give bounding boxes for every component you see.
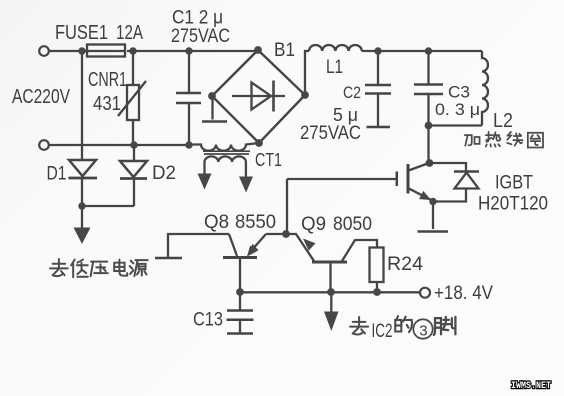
- node C13 top: [236, 288, 244, 296]
- svg-text:IGBT: IGBT: [495, 173, 533, 194]
- node B1 right: [301, 91, 309, 99]
- node R24 bottom: [373, 288, 381, 296]
- svg-text:H20T120: H20T120: [478, 194, 548, 215]
- svg-text:CT1: CT1: [255, 150, 282, 170]
- inductor L1: [309, 45, 362, 51]
- node driver common: [282, 230, 290, 238]
- transformer CT1 primary: [189, 143, 259, 151]
- svg-text:275VAC: 275VAC: [300, 123, 361, 144]
- svg-text:431: 431: [93, 93, 121, 115]
- node IGBT collector: [426, 159, 434, 167]
- svg-text:FUSE1: FUSE1: [55, 22, 108, 44]
- svg-text:0. 3 μ: 0. 3 μ: [435, 100, 480, 119]
- varistor CNR1: [118, 51, 146, 145]
- svg-text:8550: 8550: [235, 212, 276, 233]
- circled 3: [413, 319, 432, 338]
- ground at B1 left: [202, 96, 227, 122]
- svg-text:IWMS.NET: IWMS.NET: [511, 381, 551, 392]
- node B1 left: [208, 92, 216, 100]
- diode D2: [120, 145, 147, 206]
- arrow CT1 left lead: [198, 174, 212, 190]
- transistor Q9 8050: [286, 234, 377, 292]
- capacitor C2: [365, 51, 391, 127]
- capacitor C13: [227, 292, 254, 334]
- wire C3 to L2 bottom: [429, 124, 483, 126]
- wire B1 right up: [305, 51, 309, 95]
- svg-text:+18. 4V: +18. 4V: [434, 283, 493, 304]
- node D1 bottom: [78, 202, 85, 209]
- wire to IGBT collector: [427, 126, 429, 164]
- node IGBT emitter: [429, 198, 436, 205]
- label 加热线圈 (heating coil): [465, 132, 543, 148]
- node B1 top: [254, 46, 262, 54]
- wire emitter down: [432, 202, 434, 230]
- transformer CT1 secondary: [205, 156, 246, 177]
- wire: [49, 50, 91, 52]
- node IC2 branch: [327, 288, 335, 296]
- IGBT Q: [397, 163, 433, 201]
- terminal AC top: [39, 46, 49, 56]
- wire: [362, 50, 482, 52]
- arrow to low-voltage supply: [74, 206, 91, 244]
- inductor L2 heating coil: [482, 51, 488, 126]
- capacitor C1: [176, 51, 201, 145]
- node C3 top: [425, 47, 432, 54]
- svg-text:C13: C13: [193, 310, 223, 331]
- svg-text:B1: B1: [274, 40, 295, 61]
- svg-text:C3: C3: [448, 83, 470, 102]
- transistor Q8 8550: [155, 234, 286, 292]
- node CNR1 top: [129, 47, 136, 54]
- capacitor C3: [414, 51, 443, 126]
- svg-text:L2: L2: [493, 110, 513, 132]
- bridge rectifier B1: [212, 50, 305, 143]
- arrow CT1 right lead: [239, 177, 253, 193]
- resistor R24: [370, 248, 384, 293]
- node C3 bottom: [425, 122, 433, 130]
- terminal +18.4V: [420, 288, 430, 298]
- label 去低压电源 (to low voltage supply): [50, 259, 148, 277]
- node D2 top: [130, 141, 137, 148]
- svg-text:8050: 8050: [333, 214, 372, 235]
- fuse FUSE1: [87, 45, 125, 57]
- terminal AC bottom: [39, 140, 49, 150]
- svg-text:12A: 12A: [116, 22, 143, 44]
- svg-text:IC2: IC2: [372, 321, 393, 342]
- svg-text:AC220V: AC220V: [12, 86, 71, 108]
- node C2 top: [374, 47, 381, 54]
- node B1 bottom: [255, 139, 263, 147]
- svg-text:L1: L1: [326, 57, 343, 78]
- wire: [49, 144, 190, 146]
- wire gate down to driver: [286, 179, 288, 234]
- diode D1: [69, 51, 98, 206]
- wire: [189, 50, 258, 52]
- node C1 bottom: [185, 141, 192, 148]
- wire +18.4V rail: [240, 291, 420, 293]
- svg-text:D1: D1: [47, 164, 67, 185]
- svg-text:5 μ: 5 μ: [333, 105, 358, 125]
- transformer CT1 core: [203, 150, 250, 152]
- diode freewheel (IGBT): [430, 163, 480, 202]
- wire: [127, 50, 189, 52]
- svg-text:Q8: Q8: [204, 212, 229, 233]
- label 去IC2的3脚 (to IC2 pin 3): [350, 316, 455, 339]
- node C1 top: [185, 47, 192, 54]
- svg-text:R24: R24: [387, 254, 423, 275]
- svg-text:C2: C2: [343, 83, 361, 102]
- svg-text:CNR1: CNR1: [88, 69, 127, 91]
- wire D1-D2 bottoms: [82, 205, 134, 207]
- svg-text:3: 3: [419, 323, 427, 340]
- svg-text:D2: D2: [152, 163, 176, 184]
- node fuse-in junction: [78, 47, 85, 54]
- arrow to IC2 pin3: [324, 292, 339, 331]
- ground IGBT emitter: [418, 230, 449, 233]
- wire IGBT gate: [287, 178, 397, 180]
- svg-text:275VAC: 275VAC: [171, 26, 230, 47]
- svg-text:Q9: Q9: [301, 214, 326, 235]
